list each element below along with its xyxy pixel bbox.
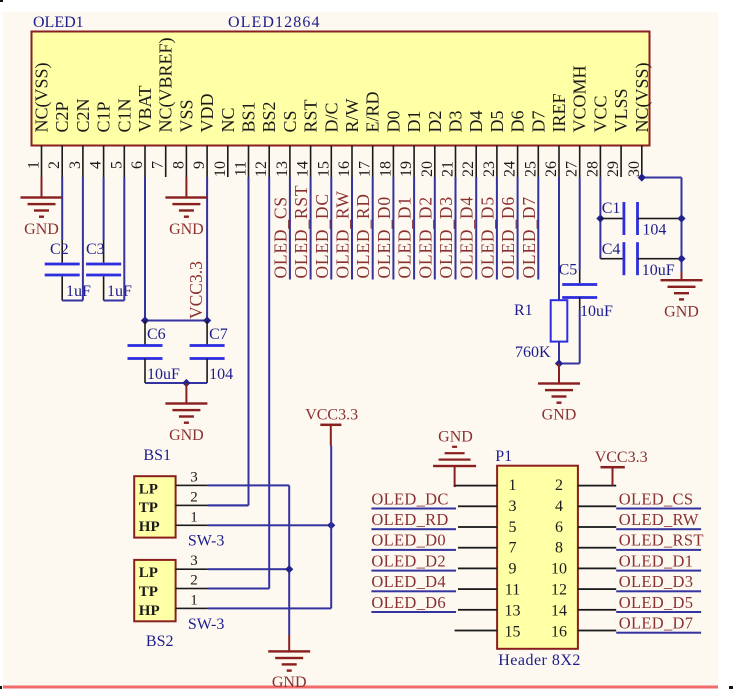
wire net OLED_D2 (left of P1) [371, 570, 456, 572]
svg-text:NC: NC [218, 107, 238, 132]
svg-text:C5: C5 [559, 262, 578, 279]
wire ground rail BS1/BS2 [288, 485, 290, 635]
svg-text:OLED_D2: OLED_D2 [415, 196, 435, 278]
BS2 pin name HP [139, 603, 160, 619]
C3 designator [86, 241, 105, 258]
net label OLED_D3 on pin 21 [436, 196, 456, 278]
svg-text:TP: TP [139, 584, 158, 600]
power symbol VCC3.3 (above P1) [595, 449, 648, 486]
BS2 pin 1 lead and number [176, 592, 208, 609]
wire BS1 pin2 to pin11 wire [208, 504, 249, 506]
net label OLED_D3 [619, 572, 694, 591]
svg-text:OLED_RW: OLED_RW [619, 510, 699, 529]
svg-text:7: 7 [509, 540, 517, 557]
pin 14 (RST) of OLED1: lead, number, name [295, 99, 321, 177]
svg-text:12: 12 [551, 582, 567, 599]
pin 24 (D6) of OLED1: lead, number, name [502, 111, 528, 178]
net label OLED_D5 [619, 593, 694, 612]
svg-text:BS1: BS1 [239, 101, 259, 132]
wire net OLED_D5 (right of P1) [616, 611, 701, 613]
pin 18 (D0) of OLED1: lead, number, name [377, 111, 403, 178]
svg-text:D3: D3 [446, 111, 466, 133]
svg-text:OLED_D1: OLED_D1 [395, 196, 415, 278]
switch BS2 body [134, 560, 175, 621]
P1 pin number 9 [509, 561, 517, 578]
BS2 type SW-3 [188, 616, 224, 633]
svg-text:760K: 760K [515, 344, 551, 361]
svg-text:19: 19 [398, 161, 415, 177]
junction C1 right [677, 214, 685, 222]
GND net label (right rail) [664, 304, 699, 321]
junction at C6/C7 ground node [182, 379, 190, 387]
wire pin26 down to R1 [558, 177, 560, 300]
svg-text:D5: D5 [487, 110, 507, 132]
svg-text:15: 15 [505, 623, 521, 640]
svg-text:BS1: BS1 [143, 447, 171, 464]
C5 designator [559, 262, 578, 279]
BS1 pin name TP [139, 500, 158, 516]
capacitor C7 [190, 321, 225, 384]
C2 value 1uF [66, 283, 91, 300]
BS2 pin name LP [139, 565, 158, 581]
C4 value 10uF [642, 262, 675, 279]
svg-text:2: 2 [555, 477, 563, 494]
wire stub pin 17 [372, 177, 374, 280]
svg-text:C1N: C1N [114, 98, 134, 132]
capacitor C4 [600, 242, 681, 275]
pin 23 (D5) of OLED1: lead, number, name [481, 110, 507, 177]
P1 pin14 lead (right) [578, 609, 616, 611]
svg-text:16: 16 [336, 161, 353, 177]
svg-text:VBAT: VBAT [135, 85, 155, 132]
svg-text:27: 27 [564, 161, 581, 177]
svg-text:8: 8 [555, 540, 563, 557]
C5 value 10uF [580, 303, 613, 320]
svg-text:C1: C1 [602, 200, 621, 217]
svg-text:OLED_RST: OLED_RST [291, 185, 311, 279]
svg-text:10uF: 10uF [642, 262, 675, 279]
svg-text:C3: C3 [86, 241, 105, 258]
svg-text:6: 6 [129, 161, 146, 169]
net label OLED_D1 on pin 19 [395, 196, 415, 278]
C6 value 10uF [147, 366, 180, 383]
svg-text:HP: HP [139, 519, 160, 535]
pin 6 (VBAT) of OLED1: lead, number, name [129, 85, 155, 177]
wire stub pin 21 [455, 177, 457, 280]
svg-text:OLED_D5: OLED_D5 [619, 593, 694, 612]
BS1 pin 2 lead and number [176, 489, 208, 506]
svg-text:NC(VSS): NC(VSS) [32, 62, 53, 132]
svg-text:23: 23 [481, 161, 498, 177]
wire pin8 to ground [185, 177, 187, 198]
P1 pin8 lead (right) [578, 547, 616, 549]
pin 15 (D/C) of OLED1: lead, number, name [315, 102, 341, 177]
svg-text:OLED_RST: OLED_RST [619, 531, 704, 550]
net label OLED_RST [619, 531, 704, 550]
svg-text:OLED_RD: OLED_RD [353, 193, 373, 278]
resistor R1 [551, 300, 568, 341]
svg-text:12: 12 [253, 161, 270, 177]
wire BS1 pin1 to VCC rail [208, 524, 331, 526]
wire C5 bottom to R1 node [559, 297, 581, 365]
P1 pin number 11 [505, 582, 520, 599]
svg-text:D4: D4 [466, 111, 486, 133]
net label OLED_DC on pin 15 [312, 193, 332, 278]
P1 pin2 lead (right) [578, 485, 616, 487]
wire net OLED_D3 (right of P1) [616, 590, 701, 592]
ground symbol right rail [661, 279, 703, 301]
P1 pin number 3 [509, 498, 517, 515]
svg-text:VLSS: VLSS [611, 88, 631, 132]
svg-text:1: 1 [190, 509, 198, 525]
svg-text:R/W: R/W [342, 98, 362, 132]
svg-text:HP: HP [139, 603, 160, 619]
wire stub pin 13 [289, 177, 291, 280]
wire pin2 down to C2 [61, 177, 63, 263]
svg-text:9: 9 [509, 561, 517, 578]
P1 pin number 12 [551, 582, 567, 599]
wire stub pin 14 [310, 177, 312, 280]
P1 pin number 6 [555, 519, 563, 536]
svg-text:26: 26 [543, 161, 560, 177]
net label OLED_D4 [371, 572, 446, 591]
svg-text:OLED_RW: OLED_RW [333, 190, 353, 278]
svg-text:P1: P1 [495, 448, 512, 465]
net label OLED_D2 [371, 551, 446, 570]
wire C6/C7 bottoms to ground [145, 382, 207, 384]
svg-text:CS: CS [280, 110, 300, 132]
svg-text:C2P: C2P [52, 101, 72, 132]
pin 7 (NC(VBREF)) of OLED1: lead, number, name [150, 37, 177, 177]
svg-text:C6: C6 [147, 326, 166, 343]
C2 designator [50, 241, 69, 258]
svg-text:BS2: BS2 [146, 633, 174, 650]
svg-text:OLED_D7: OLED_D7 [619, 614, 694, 633]
svg-text:1: 1 [26, 161, 43, 169]
svg-text:D6: D6 [508, 111, 528, 133]
wire net OLED_D4 (left of P1) [371, 590, 456, 592]
pin 16 (R/W) of OLED1: lead, number, name [336, 98, 362, 177]
P1 pin16 lead (right) [578, 630, 616, 632]
svg-text:13: 13 [274, 161, 291, 177]
svg-text:6: 6 [555, 519, 563, 536]
svg-text:3: 3 [190, 553, 198, 569]
P1 pin11 lead (left) [458, 588, 497, 590]
svg-text:4: 4 [88, 161, 105, 169]
P1 pin12 lead (right) [578, 588, 616, 590]
svg-text:OLED_D0: OLED_D0 [374, 196, 394, 278]
svg-text:3: 3 [509, 498, 517, 515]
wire VCC rail down to BS2 pin1 [330, 446, 332, 609]
ground symbol below C6/C7 [165, 402, 207, 424]
net label OLED_D1 [619, 551, 694, 570]
wire pin30 right and down to ground rail [642, 177, 683, 273]
svg-text:OLED_D3: OLED_D3 [619, 572, 694, 591]
net label OLED_RW [619, 510, 699, 529]
svg-text:3: 3 [190, 469, 198, 485]
R1 value 760K [515, 344, 551, 361]
svg-text:1uF: 1uF [107, 283, 132, 300]
svg-text:SW-3: SW-3 [188, 533, 224, 550]
wire pin4 down to C3 [103, 177, 105, 263]
BS2 designator [146, 633, 174, 650]
svg-text:OLED_D4: OLED_D4 [371, 572, 446, 591]
P1 pin number 5 [509, 519, 517, 536]
svg-text:OLED_RD: OLED_RD [371, 510, 448, 529]
BS1 pin 1 lead and number [176, 509, 208, 526]
svg-text:VDD: VDD [197, 94, 217, 133]
wire pin6 down [144, 177, 146, 321]
svg-text:18: 18 [377, 161, 394, 177]
svg-text:2: 2 [46, 161, 63, 169]
P1 pin13 lead (left) [458, 609, 497, 611]
wire pin27 down to C5 [579, 177, 581, 283]
svg-text:11: 11 [505, 582, 520, 599]
svg-text:GND: GND [24, 221, 59, 238]
ground symbol below switches [268, 650, 310, 672]
pin 20 (D2) of OLED1: lead, number, name [419, 111, 445, 178]
net label VCC3.3 on pin9 wire [186, 261, 206, 319]
P1 pin number 2 [555, 477, 563, 494]
wire net OLED_D7 (right of P1) [616, 632, 701, 634]
net label OLED_D6 [371, 593, 446, 612]
svg-text:D0: D0 [383, 111, 403, 133]
pin 5 (C1N) of OLED1: lead, number, name [108, 98, 134, 177]
svg-text:OLED_D2: OLED_D2 [371, 551, 446, 570]
net label OLED_D7 [619, 614, 694, 633]
C7 value 104 [209, 366, 233, 383]
wire R1 bottom to ground node [558, 342, 560, 364]
BS1 pin 3 lead and number [176, 469, 208, 486]
ground symbol at pin 8 [165, 196, 207, 218]
C6 designator [147, 326, 166, 343]
pin 21 (D3) of OLED1: lead, number, name [440, 111, 466, 178]
svg-text:24: 24 [502, 161, 519, 177]
svg-text:11: 11 [233, 161, 250, 176]
ground stem right rail [681, 272, 683, 280]
net label OLED_CS on pin 13 [270, 196, 290, 278]
svg-text:1: 1 [509, 477, 517, 494]
wire net OLED_RD (left of P1) [371, 528, 456, 530]
net label OLED_D0 on pin 18 [374, 196, 394, 278]
pin 28 (VCC) of OLED1: lead, number, name [584, 95, 610, 177]
junction at pin6 rail [141, 316, 149, 324]
P1 pin9 lead (left) [458, 568, 497, 570]
svg-text:2: 2 [190, 573, 198, 589]
svg-text:3: 3 [67, 161, 84, 169]
svg-text:8: 8 [170, 161, 187, 169]
R1 designator [514, 302, 533, 319]
P1 pin number 7 [509, 540, 517, 557]
P1 pin number 14 [551, 602, 567, 619]
svg-text:Header 8X2: Header 8X2 [498, 652, 581, 669]
BS1 pin name HP [139, 519, 160, 535]
wire BS2 pin2 up to pin12 wire [208, 588, 269, 590]
P1 type label Header 8X2 [498, 652, 581, 669]
GND net label (C6/C7) [169, 427, 204, 444]
wire BS2 pin3 to ground rail [208, 568, 289, 570]
junction at pin30 [638, 173, 646, 181]
BS1 designator [143, 447, 171, 464]
junction BS2 pin3 at ground rail [285, 565, 293, 573]
svg-text:30: 30 [626, 161, 643, 177]
wire net OLED_CS (right of P1) [616, 508, 701, 510]
svg-text:NC(VBREF): NC(VBREF) [156, 37, 177, 132]
BS2 pin name TP [139, 584, 158, 600]
wire stub pin 16 [351, 177, 353, 280]
svg-text:NC(VSS): NC(VSS) [632, 62, 653, 132]
svg-text:SW-3: SW-3 [188, 616, 224, 633]
C3 value 1uF [107, 283, 132, 300]
wire BS1 pin3 to ground rail [208, 484, 289, 486]
pin 22 (D4) of OLED1: lead, number, name [460, 111, 486, 178]
pin 9 (VDD) of OLED1: lead, number, name [191, 94, 217, 178]
wire stub pin 15 [330, 177, 332, 280]
svg-text:OLED_D0: OLED_D0 [371, 531, 446, 550]
svg-text:2: 2 [190, 489, 198, 505]
svg-text:OLED_DC: OLED_DC [312, 193, 332, 278]
svg-text:GND: GND [542, 407, 577, 424]
wire net OLED_RST (right of P1) [616, 549, 701, 551]
C4 designator [602, 241, 621, 258]
svg-text:RST: RST [301, 99, 321, 132]
wire net OLED_D6 (left of P1) [371, 611, 456, 613]
svg-text:C2: C2 [50, 241, 69, 258]
capacitor C1 [600, 202, 681, 235]
svg-text:D7: D7 [528, 111, 548, 133]
svg-text:D2: D2 [425, 111, 445, 133]
svg-text:LP: LP [139, 482, 158, 498]
wire net OLED_RW (right of P1) [616, 528, 701, 530]
svg-text:OLED_D1: OLED_D1 [619, 551, 694, 570]
pin 30 (NC(VSS)) of OLED1: lead, number, name [626, 62, 653, 177]
P1 pin number 8 [555, 540, 563, 557]
svg-text:C7: C7 [209, 326, 228, 343]
svg-text:C1P: C1P [94, 101, 114, 132]
IC OLED1 designator [33, 14, 84, 31]
wire stub pin 18 [392, 177, 394, 280]
svg-text:OLED_D4: OLED_D4 [457, 196, 477, 278]
net label OLED_D4 on pin 22 [457, 196, 477, 278]
net label OLED_DC [371, 489, 448, 508]
svg-text:21: 21 [440, 161, 457, 177]
wire pin12 down to BS2 switch [208, 177, 270, 590]
svg-text:OLED12864: OLED12864 [228, 14, 321, 31]
svg-text:OLED_CS: OLED_CS [619, 489, 694, 508]
svg-text:4: 4 [555, 498, 563, 515]
GND net label (R1/C5) [542, 407, 577, 424]
svg-text:GND: GND [272, 674, 307, 689]
sheet bottom border line [3, 686, 718, 689]
svg-text:OLED_D6: OLED_D6 [498, 196, 518, 278]
svg-text:OLED_D5: OLED_D5 [477, 196, 497, 278]
wire net OLED_D1 (right of P1) [616, 570, 701, 572]
svg-text:17: 17 [357, 161, 374, 177]
svg-text:GND: GND [169, 427, 204, 444]
svg-text:VCC: VCC [590, 95, 610, 132]
capacitor C6 [128, 321, 163, 384]
power symbol VCC3.3 (switch area) [305, 407, 358, 446]
junction BS1 pin1 at VCC rail [327, 521, 335, 529]
P1 pin4 lead (right) [578, 505, 616, 507]
wire stub pin 20 [434, 177, 436, 280]
svg-text:OLED_D3: OLED_D3 [436, 196, 456, 278]
P1 pin6 lead (right) [578, 526, 616, 528]
capacitor C2 [45, 263, 80, 277]
P1 pin number 13 [505, 602, 521, 619]
sheet corner marks [0, 0, 3, 2]
C7 designator [209, 326, 228, 343]
svg-text:10uF: 10uF [580, 303, 613, 320]
svg-text:TP: TP [139, 500, 158, 516]
wire stub pin 22 [475, 177, 477, 280]
svg-text:GND: GND [664, 304, 699, 321]
pin 1 (NC(VSS)) of OLED1: lead, number, name [26, 62, 53, 177]
ground stem below C6/C7 [185, 383, 187, 404]
svg-text:VCC3.3: VCC3.3 [305, 407, 358, 424]
svg-text:14: 14 [551, 602, 567, 619]
pin 19 (D1) of OLED1: lead, number, name [398, 111, 424, 178]
pin 12 (BS2) of OLED1: lead, number, name [253, 101, 279, 177]
net label OLED_RD [371, 510, 448, 529]
net label OLED_CS [619, 489, 694, 508]
pin 25 (D7) of OLED1: lead, number, name [522, 111, 548, 178]
svg-text:25: 25 [522, 161, 539, 177]
P1 pin number 15 [505, 623, 521, 640]
svg-text:5: 5 [108, 161, 125, 169]
pin 4 (C1P) of OLED1: lead, number, name [88, 101, 114, 177]
switch BS1 body [134, 476, 175, 537]
junction pin28 at C1 [596, 214, 604, 222]
connector P1 body [497, 466, 578, 649]
net label OLED_D2 on pin 20 [415, 196, 435, 278]
svg-text:OLED_D6: OLED_D6 [371, 593, 446, 612]
junction R1/C5 ground node [555, 359, 563, 367]
svg-text:BS2: BS2 [259, 101, 279, 132]
junction at pin9 rail [203, 316, 211, 324]
P1 designator [495, 448, 512, 465]
svg-text:10: 10 [212, 161, 229, 177]
P1 pin number 10 [551, 561, 567, 578]
svg-text:OLED_CS: OLED_CS [270, 196, 290, 278]
svg-text:22: 22 [460, 161, 477, 177]
wire BS2 pin1 to VCC rail [208, 607, 331, 609]
wire rail joining pin6 and pin9 [145, 320, 207, 322]
svg-text:OLED_DC: OLED_DC [371, 489, 448, 508]
svg-text:10uF: 10uF [147, 366, 180, 383]
wire net OLED_DC (left of P1) [371, 508, 456, 510]
svg-text:10: 10 [551, 561, 567, 578]
svg-text:1: 1 [190, 592, 198, 608]
svg-text:GND: GND [169, 221, 204, 238]
wire stub pin 24 [517, 177, 519, 280]
ground symbol (inverted) above P1 [433, 428, 476, 487]
P1 pin15 lead (left stub) [455, 630, 498, 632]
P1 pin10 lead (right) [578, 568, 616, 570]
svg-text:IREF: IREF [549, 93, 569, 132]
svg-text:14: 14 [295, 161, 312, 177]
svg-text:7: 7 [150, 161, 167, 169]
GND net label (pin8) [169, 221, 204, 238]
ground stem below R1 [558, 364, 560, 384]
svg-text:1uF: 1uF [66, 283, 91, 300]
wire pin9 down [206, 177, 208, 321]
GND net label (switches) [272, 674, 307, 689]
svg-text:5: 5 [509, 519, 517, 536]
wire net OLED_D0 (left of P1) [371, 549, 456, 551]
C1 value 104 [642, 222, 666, 239]
wire stub pin 25 [537, 177, 539, 280]
